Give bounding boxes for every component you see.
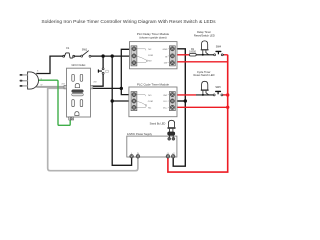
bottom slots	[72, 100, 75, 107]
switch SW3	[213, 91, 223, 96]
svg-text:1000Ω: 1000Ω	[189, 52, 196, 54]
red wire delay 12V to rail	[174, 61, 228, 63]
red wire cycle DC+ to rail	[174, 106, 228, 108]
svg-text:B: B	[37, 71, 39, 73]
right terminal	[90, 85, 93, 89]
svg-text:(shown upside down): (shown upside down)	[139, 35, 166, 39]
svg-text:12V: 12V	[164, 62, 168, 64]
svg-text:DC-: DC-	[164, 101, 168, 103]
top ground hole	[75, 84, 79, 88]
PLC cycle timer module U2	[129, 87, 177, 117]
svg-text:NC: NC	[148, 49, 152, 51]
left terminal	[64, 85, 67, 89]
wire cycle led branch	[196, 94, 214, 96]
pushbutton NO (GFCI bypass)	[98, 68, 104, 74]
neutral wire plug to GFCI	[36, 86, 66, 88]
svg-text:LINE: LINE	[93, 81, 98, 83]
LED delay (D1)	[201, 41, 209, 56]
bottom ground hole	[75, 112, 79, 116]
wire delay led branch	[196, 54, 214, 56]
svg-text:NO: NO	[148, 61, 152, 63]
svg-text:GFCI Outlet: GFCI Outlet	[71, 63, 85, 67]
resistor legs to psu	[169, 135, 173, 137]
resistor R2	[168, 132, 175, 135]
svg-text:GND: GND	[163, 49, 168, 51]
standby LED	[167, 120, 175, 132]
red wire cycle CH1	[174, 94, 197, 96]
delay module screws	[132, 47, 175, 65]
bottom ground terminal	[69, 117, 74, 120]
switch SW4	[214, 51, 223, 56]
red rail +12V	[168, 55, 228, 172]
right terminal block	[169, 46, 175, 66]
red wire SW4 to rail	[223, 54, 228, 56]
relay contact drawing	[137, 49, 147, 63]
svg-text:W: W	[41, 85, 43, 87]
wire hot SW1 to delay module COM	[91, 55, 133, 57]
svg-text:Stand By LED: Stand By LED	[150, 123, 166, 126]
junction dot dc-	[184, 99, 187, 102]
fuse F1	[63, 53, 75, 58]
junction dot main-psu	[111, 54, 114, 57]
red junction dc+	[226, 106, 229, 109]
PLC delay timer module U1	[130, 42, 178, 69]
top screws for led	[168, 137, 171, 140]
wire SW3 out to rail	[222, 94, 226, 96]
wire GFCI load hot to timers	[93, 87, 122, 89]
svg-text:SW3: SW3	[215, 86, 221, 89]
wire pushbutton branch	[102, 56, 104, 68]
svg-text:COM: COM	[148, 55, 153, 57]
red junction cycle sw	[226, 93, 229, 96]
wire cycle COM stub	[112, 100, 133, 102]
LED cycle (D2)	[201, 81, 209, 96]
wire hot branch to cycle COM and psu L	[112, 56, 131, 165]
bottom screws	[130, 154, 175, 158]
wire hot fuse to SW1	[74, 55, 81, 57]
cycle module screws	[132, 93, 175, 110]
svg-text:F1: F1	[66, 47, 70, 50]
reset button	[72, 93, 84, 96]
svg-text:PLC Cycle Timer Module: PLC Cycle Timer Module	[137, 83, 169, 87]
svg-text:SW1: SW1	[82, 49, 88, 52]
svg-text:NC: NC	[148, 107, 152, 109]
red wire delay IN to R1	[174, 54, 190, 56]
resistor R1	[189, 54, 196, 57]
left terminal block	[131, 92, 137, 111]
svg-text:NO: NO	[148, 95, 152, 97]
svg-text:12VDC Power Supply: 12VDC Power Supply	[127, 132, 153, 136]
svg-text:Soldering Iron Pulse Timer Con: Soldering Iron Pulse Timer Controller Wi…	[41, 19, 216, 25]
left terminal block	[131, 46, 137, 66]
GFCI outlet	[61, 68, 98, 120]
neutral wire to psu N	[48, 88, 138, 170]
black wire cycle DC-	[174, 100, 186, 102]
svg-text:Reset/Switch LED: Reset/Switch LED	[194, 33, 215, 37]
junction dot main-button	[101, 54, 104, 57]
green ground wire plug to GFCI	[38, 80, 70, 125]
junction dot loadhot	[120, 87, 123, 90]
svg-text:Reset Switch LED: Reset Switch LED	[194, 73, 215, 77]
wire SW4 out	[223, 54, 224, 56]
wire hot from plug to fuse	[36, 56, 63, 73]
label NO	[106, 70, 109, 72]
wire to delay module NC terminal	[121, 49, 133, 94]
test button	[72, 90, 84, 93]
switch SW1	[81, 51, 91, 58]
relay contact drawing	[137, 95, 146, 108]
svg-text:COM: COM	[148, 101, 153, 103]
top slots	[72, 74, 75, 81]
junction dot cycle com	[111, 99, 114, 102]
12VDC power supply	[127, 132, 177, 158]
black wire delay GND to psu V-	[173, 49, 185, 166]
right terminal block	[169, 92, 175, 111]
AC plug	[20, 71, 43, 90]
svg-text:SW4: SW4	[216, 46, 222, 49]
